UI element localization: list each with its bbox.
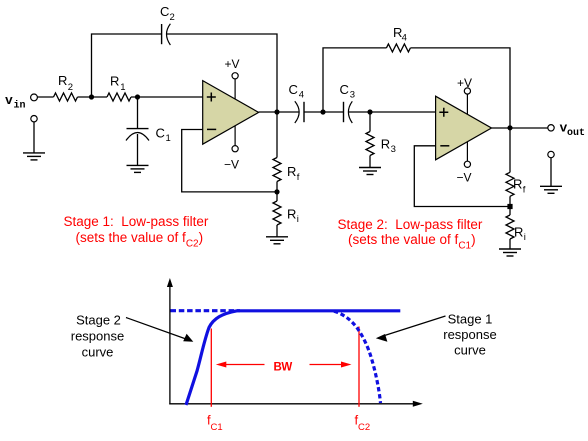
svg-text:R: R bbox=[514, 225, 523, 240]
wire: C3 to op-amp U2 non-inverting input bbox=[348, 111, 435, 113]
ground (v_out reference) bbox=[540, 186, 562, 193]
svg-text:3: 3 bbox=[350, 90, 355, 101]
node B: R1/C1 junction bbox=[135, 94, 140, 99]
graph y-axis bbox=[167, 278, 173, 404]
annotation arrow to stage 1 curve bbox=[376, 316, 446, 342]
blue dashed flat segment (stage 1 response, left) bbox=[171, 309, 241, 312]
svg-text:2: 2 bbox=[68, 82, 73, 93]
wire: R1 to op-amp U1 non-inverting input bbox=[131, 96, 203, 98]
power rail line through U2 bbox=[466, 94, 468, 161]
svg-text:Stage 2: Stage 2 bbox=[76, 313, 121, 328]
svg-text:Stage 2: Low-pass filter: Stage 2: Low-pass filter bbox=[338, 217, 483, 232]
node A: R2/R1/C2 junction bbox=[89, 94, 94, 99]
ground (stage2 Ri) bbox=[499, 249, 521, 256]
power rail line through U1 bbox=[234, 79, 236, 146]
svg-text:1: 1 bbox=[166, 133, 171, 144]
wire: v_out ground stem bbox=[550, 158, 552, 187]
resistor Rf stage2 bbox=[506, 172, 526, 196]
wire: C2 right plate to output node C bbox=[167, 34, 278, 112]
wire: Ri2 to ground bbox=[509, 239, 511, 249]
annotation arrow to stage 2 curve bbox=[126, 318, 193, 342]
label f_C2 bbox=[355, 413, 371, 434]
resistor R1 bbox=[107, 74, 131, 102]
node D: Rf/Ri/feedback junction stage1 bbox=[274, 189, 279, 194]
svg-text:C: C bbox=[160, 4, 169, 19]
resistor Rf stage1 bbox=[273, 158, 300, 184]
terminal v_out bbox=[548, 125, 554, 131]
svg-text:C1: C1 bbox=[211, 422, 223, 433]
svg-text:R: R bbox=[287, 164, 296, 179]
annotation text: Stage 2 response curve bbox=[71, 313, 124, 360]
svg-text:in: in bbox=[14, 100, 26, 112]
svg-text:i: i bbox=[524, 232, 526, 243]
svg-text:Stage 1: Stage 1 bbox=[448, 312, 493, 327]
capacitor C4 bbox=[289, 82, 305, 123]
ground (input reference) bbox=[23, 153, 45, 160]
ground (stage1 Ri) bbox=[266, 237, 288, 244]
red marker line f_C1 bbox=[210, 329, 212, 407]
wire: node F down to R3 bbox=[369, 112, 371, 132]
node E: C4/C3/R4 junction bbox=[320, 109, 325, 114]
resistor Ri stage2 bbox=[506, 215, 526, 243]
wire: feedback from U1 inverting input bbox=[182, 130, 277, 192]
capacitor C1 bbox=[126, 126, 171, 145]
svg-text:4: 4 bbox=[402, 33, 407, 44]
node C: output/C2/Rf junction bbox=[274, 109, 279, 114]
svg-text:3: 3 bbox=[391, 144, 396, 155]
svg-text:Stage 1: Low-pass filter: Stage 1: Low-pass filter bbox=[64, 214, 209, 229]
ground (below C1) bbox=[127, 165, 149, 172]
svg-text:+V: +V bbox=[457, 76, 472, 90]
annotation text: Stage 1 response curve bbox=[443, 312, 496, 358]
svg-text:i: i bbox=[297, 214, 299, 225]
wire: node E up and across to R4 bbox=[323, 48, 386, 112]
node G: output/R4/Rf2 junction bbox=[507, 125, 512, 130]
caption: Stage 2 low-pass filter bbox=[338, 217, 483, 252]
blue solid response curve (stage 2) bbox=[186, 311, 400, 405]
svg-text:C2: C2 bbox=[358, 422, 370, 433]
svg-text:−V: −V bbox=[457, 171, 472, 185]
svg-text:f: f bbox=[523, 185, 526, 196]
resistor Ri stage1 bbox=[273, 201, 299, 225]
red BW left arrow bbox=[216, 362, 265, 368]
wire: input terminal to R2 bbox=[37, 96, 53, 98]
svg-text:C: C bbox=[156, 126, 165, 141]
svg-text:response: response bbox=[443, 327, 496, 342]
wire: C4 to C3 bbox=[304, 111, 343, 113]
wire: node G down to Rf stage2 bbox=[509, 128, 511, 173]
terminal: v_in input bbox=[31, 94, 38, 101]
-V terminal U1 bbox=[224, 146, 239, 172]
svg-text:R: R bbox=[287, 207, 296, 222]
svg-text:4: 4 bbox=[299, 90, 304, 101]
blue dashed falling curve (stage 1 response, right) bbox=[334, 311, 381, 403]
capacitor C2 bbox=[160, 4, 175, 45]
-V terminal U2 bbox=[457, 161, 472, 184]
svg-text:R: R bbox=[381, 137, 390, 152]
wire: Ri stage1 to ground bbox=[276, 225, 278, 237]
wire: Rf2 to Ri2 bbox=[509, 196, 511, 215]
svg-text:BW: BW bbox=[274, 362, 293, 374]
wire: input ground stem bbox=[33, 122, 35, 153]
capacitor C3 bbox=[340, 82, 355, 123]
terminal: ground reference near v_out bbox=[548, 151, 554, 157]
wire: feedback from U2 inverting input bbox=[414, 146, 510, 207]
wire: R2 to R1 bbox=[78, 96, 108, 98]
op-amp U2 bbox=[436, 96, 492, 160]
svg-text:curve: curve bbox=[454, 343, 486, 358]
wire: U2 output to v_out bbox=[492, 127, 548, 129]
svg-text:−V: −V bbox=[224, 158, 239, 172]
resistor R3 bbox=[366, 132, 396, 156]
node H: Rf/Ri/feedback junction stage2 bbox=[507, 204, 512, 209]
resistor R2 bbox=[54, 73, 78, 101]
wire: Rf to Ri stage1 bbox=[276, 182, 278, 202]
svg-text:R: R bbox=[110, 74, 119, 89]
svg-text:C: C bbox=[340, 82, 349, 97]
svg-text:1: 1 bbox=[120, 82, 125, 93]
wire: node A up to C2 bbox=[92, 34, 162, 97]
svg-text:+V: +V bbox=[225, 57, 240, 71]
label v_in bbox=[5, 93, 26, 112]
svg-text:C: C bbox=[289, 82, 298, 97]
+V terminal U1 bbox=[225, 57, 240, 79]
svg-text:2: 2 bbox=[170, 12, 175, 23]
red BW right arrow bbox=[310, 362, 352, 368]
svg-text:response: response bbox=[71, 329, 124, 344]
+V terminal U2 bbox=[457, 76, 472, 94]
resistor R4 bbox=[386, 25, 410, 52]
wire: node B down to C1 bbox=[137, 97, 139, 128]
op-amp U1 bbox=[203, 81, 259, 145]
wire: R4 down to output node G bbox=[410, 48, 510, 128]
wire: R3 to ground bbox=[369, 156, 371, 168]
wire: node C down to Rf bbox=[276, 112, 278, 158]
label v_out bbox=[560, 121, 586, 140]
ground (R3) bbox=[359, 168, 381, 175]
svg-text:out: out bbox=[567, 128, 585, 139]
svg-text:v: v bbox=[5, 93, 13, 108]
graph x-axis bbox=[169, 401, 422, 407]
svg-text:f: f bbox=[297, 172, 300, 183]
caption: Stage 1 low-pass filter bbox=[64, 214, 209, 250]
red marker line f_C2 bbox=[358, 327, 360, 407]
wire: U1 output to C4 bbox=[259, 111, 300, 113]
wire: C1 to ground bbox=[137, 134, 139, 165]
label f_C1 bbox=[207, 413, 223, 434]
svg-text:curve: curve bbox=[82, 345, 114, 360]
terminal: input ground reference bbox=[31, 116, 37, 122]
svg-text:R: R bbox=[58, 73, 67, 88]
svg-text:R: R bbox=[513, 177, 522, 192]
node F: C3/R3 junction bbox=[367, 109, 372, 114]
